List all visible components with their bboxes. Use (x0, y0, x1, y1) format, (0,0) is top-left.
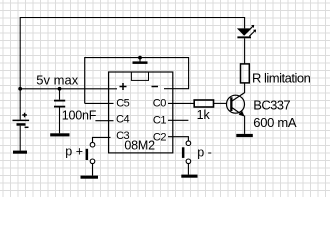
ground (p+) (81, 176, 99, 179)
ground (emitter) (236, 134, 253, 137)
node: battery junction (18, 87, 22, 91)
resistor R limitation (241, 64, 250, 83)
pin C1 stub (dead end) (168, 119, 188, 121)
capacitor C1 100nF (54, 89, 65, 134)
resistor R1 1k (194, 100, 213, 107)
svg-text:C2: C2 (153, 132, 166, 144)
wire: C2 pin to p- button (168, 137, 188, 141)
svg-text:C4: C4 (116, 113, 129, 125)
svg-text:C1: C1 (153, 115, 166, 127)
svg-text:08M2: 08M2 (124, 139, 155, 153)
battery BT1 (13, 113, 30, 151)
svg-text:C0: C0 (153, 97, 166, 109)
wire: +V rail (20, 88, 117, 90)
wire: 0V rail (C5 to IC minus) (85, 58, 189, 104)
LED arrows (247, 25, 256, 36)
pin C0 wire to resistor (168, 102, 194, 104)
IC + marker (120, 83, 127, 90)
svg-text:p +: p + (65, 145, 83, 159)
transistor Q1 BC337 (227, 93, 245, 134)
wire: top rail from battery to LED (20, 18, 244, 120)
node: 0V tap junction (138, 56, 142, 60)
wire: C5 pin to 0V rail (85, 102, 114, 104)
IC notch (131, 72, 148, 80)
svg-text:BC337: BC337 (253, 97, 290, 112)
pushbutton S2 (p -) (182, 141, 191, 175)
IC - marker (152, 86, 159, 88)
ground (capacitor) (50, 133, 69, 136)
pin C4 stub (dead end) (95, 120, 113, 122)
wire: C3 pin to p+ button (93, 137, 111, 142)
svg-text:1k: 1k (197, 108, 211, 122)
svg-text:p -: p - (197, 146, 212, 160)
svg-text:C5: C5 (116, 97, 129, 109)
svg-text:600 mA: 600 mA (253, 115, 297, 130)
node: capacitor junction (58, 87, 62, 91)
wire: resistor to collector (244, 83, 246, 93)
svg-text:100nF: 100nF (62, 108, 97, 122)
IC U1 08M2 outline (109, 72, 173, 153)
ground (p-) (181, 175, 197, 178)
svg-text:R limitation: R limitation (252, 71, 311, 86)
ground (battery) (13, 151, 27, 154)
LED D1 (237, 28, 252, 64)
wire: resistor to transistor base (214, 102, 227, 104)
pushbutton S1 (p +) (86, 142, 95, 175)
svg-text:5v max: 5v max (36, 72, 78, 87)
ground tap symbol on 0V rail (139, 58, 141, 62)
